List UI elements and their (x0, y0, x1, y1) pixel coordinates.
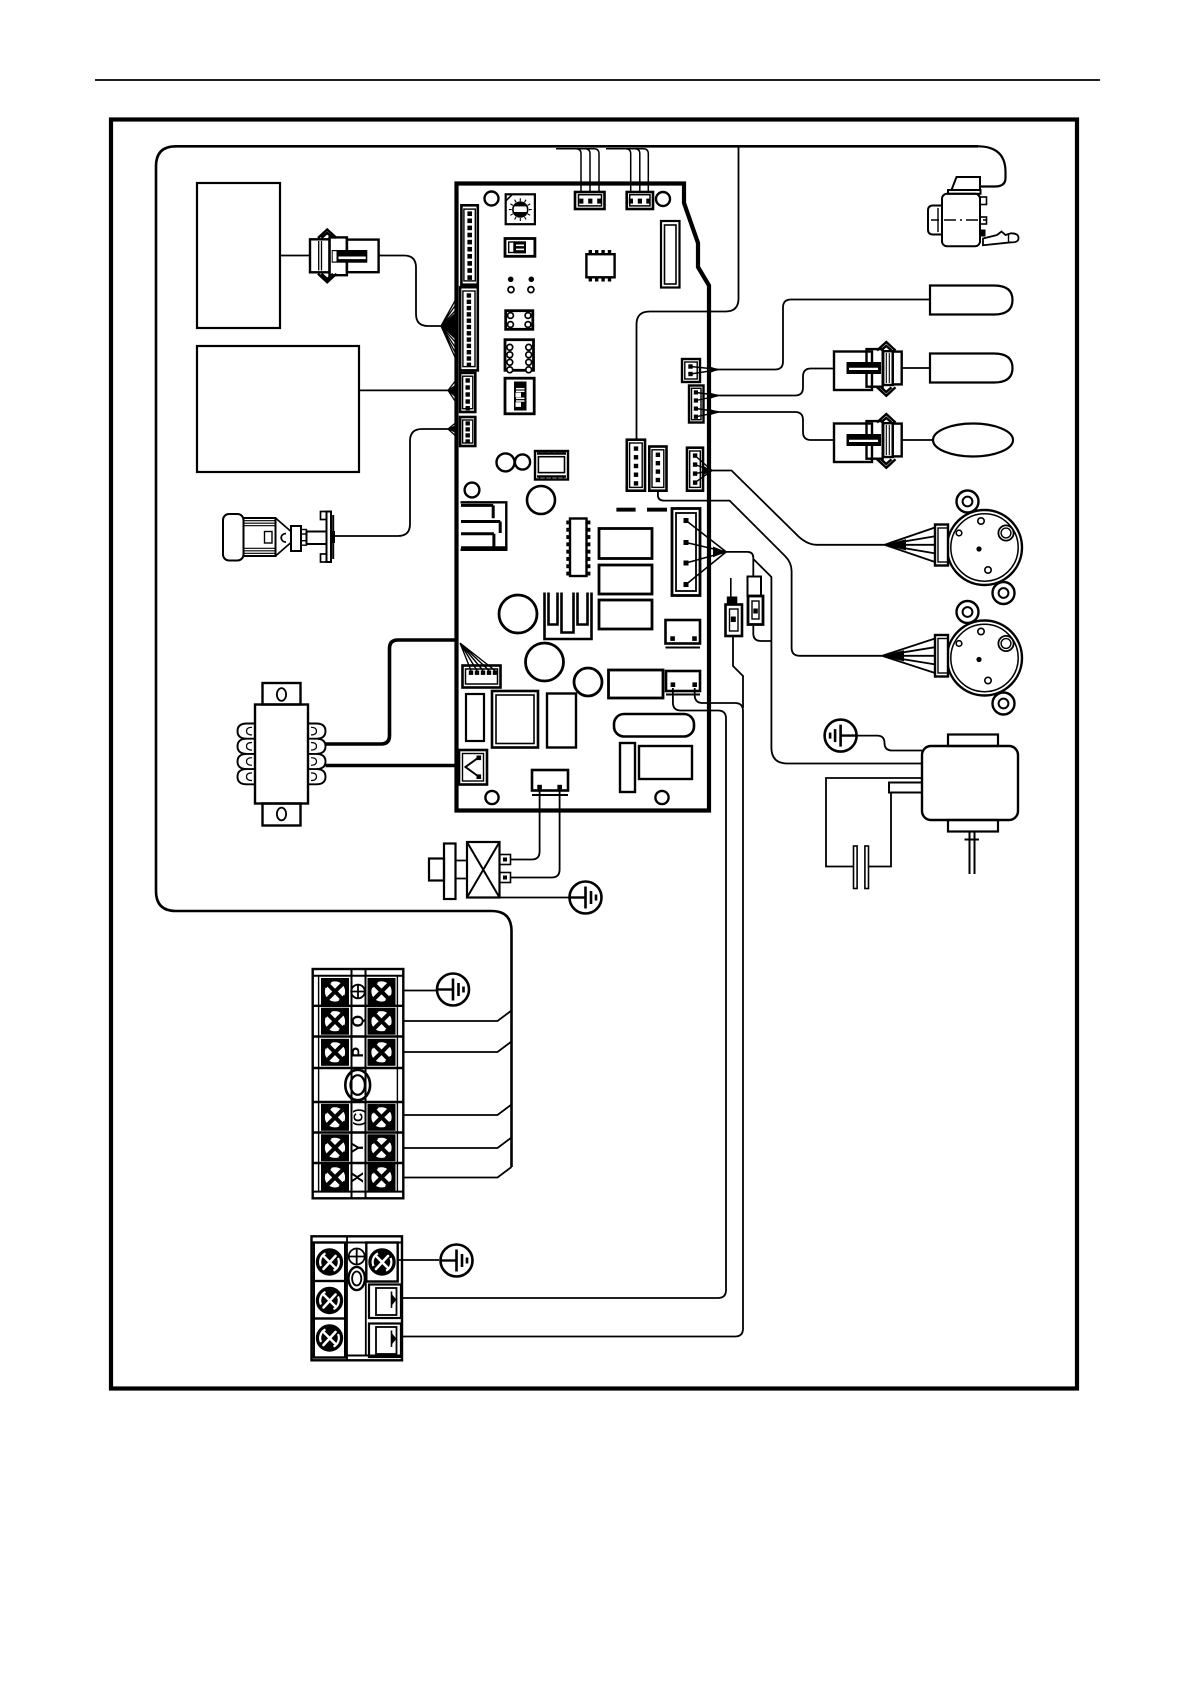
DIP switch SW2 (2-pos) (505, 239, 535, 257)
wire: bus jog to terminal X (403, 1167, 511, 1178)
mounting hole top-left (485, 192, 499, 206)
connector CN-E (5-pin) (463, 666, 501, 688)
terminal screw TB2 right top (366, 1243, 397, 1282)
TB2 socket row3 (369, 1324, 401, 1358)
capacitor C2 (526, 643, 564, 681)
PCB main board outline (457, 184, 710, 811)
fan motor FM1 (889, 735, 1018, 875)
wire: box B1 to flow switch FS1 (280, 255, 310, 257)
igniter IG1 (223, 512, 335, 563)
terminal screws TB1 right column (368, 979, 395, 1005)
wire: fuse link J1 bottom joins terminal drop (733, 636, 743, 708)
sensor E1 (ellipse) (933, 424, 1013, 457)
noise filter NF1 (429, 842, 511, 899)
wire: fan into motor M1 connector (885, 539, 907, 550)
wire: fan into connector CN4 (448, 425, 457, 434)
connector A (2-pin on edge) (682, 359, 700, 382)
wire: bus jog to terminal Q (403, 1011, 511, 1022)
IC U1 (8-pin) (586, 250, 614, 282)
fuse link J1 (726, 578, 743, 636)
wire: branch to fan motor (vertical drop) (753, 559, 922, 764)
resistor R4 (609, 670, 664, 698)
wire: CN-H pin2 down to lower terminal block (401, 688, 743, 1337)
wire: CN-D harness to fuse link J2 (726, 552, 753, 576)
wire: fuse link J2 bottom joins drop (753, 625, 771, 642)
wire: stubs from connector CN-T1 up to harness (556, 149, 599, 193)
capacitor C3 (574, 668, 602, 696)
pump P1 body (928, 177, 1019, 246)
top rule (95, 79, 1100, 81)
test point dots (508, 277, 514, 283)
wire: CN-G pin1 to noise filter NF1 (511, 791, 540, 860)
rotary switch SW1 (506, 194, 535, 224)
connector CN4 (left edge, 4-pin) (460, 417, 475, 446)
wire: bus jog to terminal C (403, 1105, 511, 1116)
IC U3 (DIP vertical) (566, 519, 590, 577)
capacitor circles mid-board (497, 453, 515, 471)
connector CN1 (left edge, 10-pin) (461, 205, 477, 284)
TB2 socket row2 (369, 1285, 401, 1319)
relay RY2 (505, 340, 534, 373)
fuse link J2 (748, 577, 764, 625)
DIP switch SW3 (4-pos) (505, 378, 534, 414)
wire: fan into connector CN3 (448, 385, 457, 396)
wire: CN-C to stepper motor M1 (712, 471, 885, 545)
wire: CN-H pin1 down to lower terminal block (401, 688, 726, 1298)
wire: main harness loop (PCB top connectors to left side, down and across to terminal bus) (156, 146, 978, 1167)
terminal screws TB2 left column (314, 1243, 345, 1282)
capacitor C0 (527, 486, 555, 514)
TB1 label: earth symbol (351, 985, 365, 999)
wire: bus jog to terminal Y (403, 1138, 511, 1149)
svg-text:Y: Y (350, 1142, 367, 1153)
component Z1 (vertical module near edge) (661, 221, 680, 288)
ground G3 (570, 882, 602, 914)
flow switch FS1 (310, 230, 379, 283)
transformer block T2 (492, 691, 538, 748)
svg-text:(C): (C) (352, 1109, 366, 1126)
ground G1 (437, 974, 469, 1006)
stepper motor M2 (935, 601, 1022, 715)
wire: CN-J2 to stepper motor M2 (658, 491, 882, 656)
wire: ground G4 to fan motor (857, 736, 922, 751)
mounting hole top-right (656, 192, 670, 206)
wire: fuse holder F2 to sensor E1 (903, 439, 934, 441)
resistor block R1 (599, 529, 652, 559)
connector CN-F (2-pin with arrow) (459, 750, 487, 785)
component RR (stadium outline) (614, 714, 694, 737)
wire: TB2 earth row to ground G2 (397, 1259, 439, 1261)
thermistor TH2 (cylinder) (930, 354, 1013, 383)
mounting hole bottom-right (655, 791, 668, 804)
wire: fuse holder F1 to thermistor TH2 (903, 367, 931, 369)
wire: box B2 to connector CN3 fan (359, 389, 448, 391)
resistor R7 (466, 694, 484, 741)
terminal block TB2 (312, 1236, 403, 1360)
wire: CN-D pins fan out to harness point (713, 547, 726, 558)
transformer TR1 (238, 683, 326, 826)
wire: connector A to thermistor TH1 (708, 366, 720, 374)
resistor block R2 (599, 565, 652, 594)
heat sink HS1 (461, 502, 507, 550)
connector CN-J1 (5-pin mid) (627, 440, 645, 491)
IC socket U2 (535, 451, 568, 480)
connector CN-H (2-pin) (666, 671, 700, 695)
wire: stubs from connector CN-T2 up to harness (606, 149, 648, 193)
wire: fan into connector CN2 (441, 296, 458, 365)
fuse holder F2 (834, 414, 902, 468)
connector CN-D (4-pin power) (672, 509, 700, 596)
ground G2 (441, 1245, 473, 1277)
capacitor C1 (499, 595, 537, 633)
wire: transformer primary to PCB connector CN-F (thick) (326, 764, 460, 768)
wire: connector B lower pins to fuse holder F2 (708, 409, 720, 417)
thermistor TH1 (cylinder) (930, 286, 1013, 315)
wire: CN-G pin2 to noise filter NF1 (511, 791, 560, 878)
connector CN-T1 (3-pin top) (575, 192, 605, 209)
stepper motor M1 (935, 491, 1022, 605)
wire: noise filter NF1 to ground G3 (500, 897, 570, 899)
svg-text:Q: Q (350, 1015, 367, 1027)
connector CN-J2 (5-pin mid) (649, 447, 666, 491)
wire: fan into motor M2 connector (882, 650, 904, 661)
wire: bus jog to terminal P (403, 1042, 511, 1053)
resistor block R3 (599, 600, 652, 629)
wire: igniter IG1 to connector CN4 fan (334, 429, 448, 536)
component block T3 (547, 694, 576, 748)
wire: transformer secondary to PCB connector CN-E (thick) (326, 640, 457, 744)
ground G4 (fan motor) (825, 720, 857, 752)
connector CN3 (left edge, 5-pin) (460, 373, 475, 412)
connector CN2 (left edge, 12-pin) (460, 287, 478, 370)
TB2 label: earth symbol (349, 1249, 365, 1265)
relay RY1 (506, 311, 533, 330)
wire: connector B upper pins to fuse holder F1 (708, 392, 720, 400)
outer border frame (111, 120, 1077, 1389)
wire: fan into CN-E (460, 643, 495, 671)
wire: TB1 earth row to ground G1 (403, 990, 437, 992)
TB1 mounting oval (345, 1070, 370, 1100)
resistor R6 (620, 743, 635, 792)
heat sink HS2 (comb) (545, 593, 592, 640)
TB2 mounting oval (349, 1267, 365, 1290)
terminal screws TB1 left column (322, 979, 349, 1005)
box B2 (display unit) (197, 346, 359, 472)
wire: flow switch FS1 to connector CN2 fan (379, 256, 441, 327)
terminal block TB1 (313, 969, 404, 1198)
connector B (4-pin on edge) (689, 386, 704, 423)
svg-text:X: X (350, 1172, 367, 1183)
connector CN-G (2-pin bottom) (532, 770, 568, 795)
svg-text:P: P (350, 1047, 367, 1058)
wire: harness drop to pump (top right corner arc) (978, 146, 1006, 186)
wire: drop from harness at x=738 into PCB connector CN-J1 (637, 146, 739, 441)
wire: CN-C pins fan to edge (703, 466, 713, 476)
jumper dashes (616, 508, 635, 512)
mounting hole bottom-left (485, 791, 498, 804)
connector CN-I (2-pin) (666, 620, 701, 648)
connector CN-T2 (3-pin top) (627, 192, 653, 209)
small capacitor (465, 483, 480, 498)
resistor R5 (639, 746, 692, 779)
box B1 (remote controller) (197, 183, 280, 328)
fuse holder F1 (834, 342, 902, 396)
capacitor CAP1 and loop (826, 778, 922, 889)
connector CN-C (5-pin mid right) (687, 448, 703, 491)
